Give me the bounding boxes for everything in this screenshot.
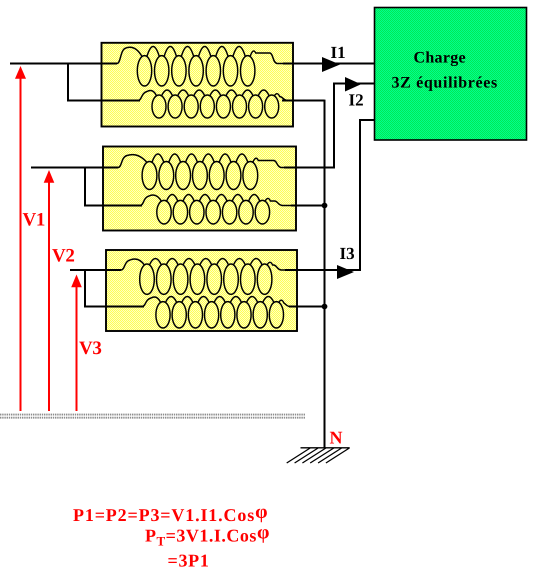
svg-text:Charge: Charge [414, 50, 466, 67]
wire W2 voltage coil output to neutral [291, 205, 325, 207]
svg-text:V2: V2 [52, 246, 75, 267]
svg-text:I1: I1 [331, 43, 346, 62]
reference potential bar [0, 415, 305, 418]
junction node W2 voltage coil to neutral [322, 203, 328, 209]
svg-text:N: N [330, 428, 343, 448]
wire W2 current coil output rising to load [284, 84, 374, 168]
wire branch to W2 voltage coil [85, 168, 142, 206]
current arrow I1 [322, 57, 340, 72]
voltage arrow V1 [20, 77, 22, 411]
wire W1 current coil output to load [283, 63, 374, 65]
current coil of wattmeter W2 [103, 154, 296, 190]
current arrow I2 [345, 77, 361, 92]
wire phase 2 feed [31, 167, 118, 169]
svg-text:PT=3V1.I.Cosφ: PT=3V1.I.Cosφ [145, 522, 270, 549]
wire branch to W1 voltage coil [68, 64, 140, 101]
svg-text:V1: V1 [23, 210, 46, 231]
wire W3 voltage coil output to neutral [289, 306, 325, 308]
svg-text:3Z équilibrées: 3Z équilibrées [392, 75, 498, 92]
wire W1 voltage coil output to neutral [282, 100, 325, 102]
voltage coil of wattmeter W3 [106, 297, 297, 328]
wire phase 1 feed [10, 63, 117, 65]
wattmeter W3 box [106, 250, 297, 331]
wattmeter W2 box [103, 147, 296, 231]
svg-text:P1=P2=P3=V1.I1.Cosφ: P1=P2=P3=V1.I1.Cosφ [73, 501, 268, 525]
ground symbol at neutral [287, 448, 350, 463]
svg-text:I2: I2 [349, 91, 364, 110]
wire neutral line down to ground [324, 100, 326, 448]
wire W3 current coil output rising to load [285, 120, 374, 270]
svg-text:=3P1: =3P1 [168, 551, 210, 571]
wattmeter W1 box [102, 43, 294, 127]
svg-text:V3: V3 [79, 338, 102, 359]
voltage arrow V2 [48, 181, 50, 411]
current arrow I3 [337, 265, 354, 279]
current coil of wattmeter W3 [106, 259, 297, 295]
junction node W3 voltage coil to neutral [322, 304, 328, 310]
wire branch to W3 voltage coil [85, 270, 144, 307]
voltage coil of wattmeter W2 [103, 195, 296, 225]
svg-text:I3: I3 [340, 244, 355, 263]
wire phase 3 feed [70, 269, 121, 271]
load box Charge 3Z equilibrees [375, 8, 527, 141]
voltage arrow V3 [76, 285, 78, 411]
voltage coil of wattmeter W1 [102, 90, 294, 118]
current coil of wattmeter W1 [102, 47, 294, 87]
